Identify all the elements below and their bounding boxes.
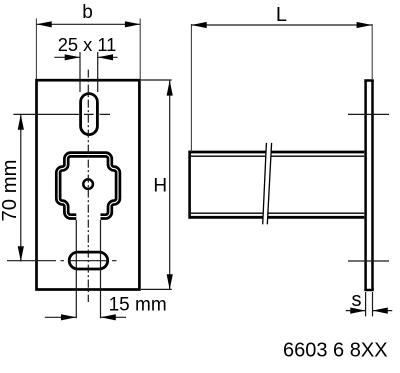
- dimension 70mm line: [20, 114, 22, 261]
- front plate outline: [37, 80, 140, 289]
- dimension L arrows: [191, 22, 372, 28]
- channel cutout outer: [58, 155, 118, 217]
- break line 2: [267, 143, 271, 224]
- top slot horizontal centerline: [13, 113, 110, 115]
- svg-text:15 mm: 15 mm: [109, 295, 167, 316]
- side view arm left end: [188, 151, 191, 219]
- dimension 25x11 arrows: [65, 54, 113, 60]
- side plate left face: [364, 81, 367, 291]
- bottom slot: [69, 252, 108, 269]
- side plate bottom hole tick: [348, 260, 389, 262]
- side plate right face: [371, 81, 374, 291]
- vertical centerline: [87, 70, 89, 302]
- center hole: [83, 179, 93, 189]
- dimension H extension lines: [141, 80, 172, 289]
- side view arm top thin line: [191, 155, 364, 157]
- side plate top cap: [364, 79, 374, 82]
- side plate top hole tick: [348, 113, 389, 115]
- side view arm bottom thin line: [191, 212, 364, 214]
- side view arm top thick line: [190, 151, 365, 154]
- dimension b arrows: [36, 21, 140, 27]
- svg-text:H: H: [153, 176, 167, 197]
- dimension s lines: [346, 310, 392, 312]
- channel cutout white core: [58, 155, 118, 217]
- dimension 25x11 extension lines: [80, 52, 98, 92]
- svg-text:6603 6 8XX: 6603 6 8XX: [283, 340, 388, 362]
- top slot 25x11: [81, 94, 98, 135]
- break line 1: [263, 143, 267, 224]
- break area white mask: [263, 143, 272, 224]
- dimension H arrows: [167, 80, 173, 289]
- side view arm bottom thick line: [190, 216, 365, 219]
- side plate bottom cap: [364, 289, 374, 292]
- dimension s arrows: [350, 308, 388, 314]
- dimension b extension lines: [36, 19, 140, 80]
- dimension H line: [169, 80, 171, 289]
- dimension 25x11 lines: [54, 56, 117, 58]
- svg-text:70 mm: 70 mm: [0, 160, 21, 222]
- dimension L extension lines: [191, 24, 372, 152]
- svg-text:25 x 11: 25 x 11: [58, 34, 117, 55]
- svg-text:b: b: [82, 2, 93, 23]
- dimension 15mm arrows: [61, 314, 116, 320]
- dimension b line: [36, 23, 140, 25]
- svg-text:L: L: [276, 4, 287, 26]
- dimension s extension lines: [366, 292, 373, 316]
- bottom slot horizontal centerline: [7, 260, 117, 262]
- dimension 15mm extension lines: [76, 220, 100, 318]
- dimension 15mm lines: [45, 316, 126, 318]
- svg-text:s: s: [352, 289, 362, 311]
- dimension L line: [191, 24, 372, 26]
- dimension 70mm arrows: [18, 114, 24, 261]
